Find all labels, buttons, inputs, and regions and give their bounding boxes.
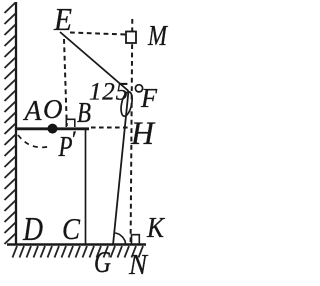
svg-text:N: N — [128, 249, 148, 281]
svg-text:C: C — [62, 211, 80, 246]
svg-text:E: E — [53, 1, 72, 37]
dashed arc to P — [18, 135, 51, 147]
square marker at M — [126, 32, 136, 44]
dashed horizontal E-M — [70, 33, 126, 35]
angle arc at G — [115, 233, 126, 245]
ground line — [7, 243, 146, 246]
rod A-O-B (solid horizontal) — [16, 127, 89, 130]
svg-text:125: 125 — [89, 79, 129, 106]
line F-G — [113, 91, 129, 245]
ground hatching — [13, 246, 144, 258]
wall line — [15, 2, 17, 245]
degree ring of 125 — [135, 85, 142, 92]
dashed vertical E-B — [64, 39, 67, 126]
line E-F — [60, 32, 129, 91]
svg-text:O: O — [43, 94, 63, 124]
svg-text:K: K — [146, 213, 165, 244]
svg-text:D: D — [22, 211, 43, 248]
right-angle square at B — [66, 119, 75, 127]
angle arc at F — [119, 91, 134, 117]
vertical line B-C — [85, 129, 87, 244]
svg-text:M: M — [147, 21, 168, 52]
dashed line B-H — [91, 127, 130, 129]
svg-text:H: H — [130, 116, 156, 152]
wall hatching — [5, 3, 16, 245]
vertical dashed M-F-H-N — [131, 19, 133, 244]
svg-text:A: A — [23, 95, 42, 127]
pivot dot at O — [48, 124, 58, 134]
svg-text:F: F — [140, 83, 157, 113]
right-angle square at N — [132, 235, 140, 244]
svg-text:G: G — [94, 244, 111, 279]
